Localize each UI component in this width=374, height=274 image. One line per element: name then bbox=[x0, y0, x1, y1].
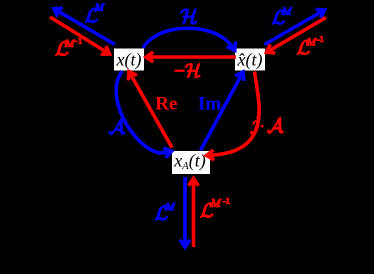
svg-text:xA(t): xA(t) bbox=[173, 151, 205, 173]
svg-text:x(t): x(t) bbox=[116, 49, 142, 70]
svg-text:Im: Im bbox=[198, 93, 221, 114]
svg-text:x̂(t): x̂(t) bbox=[237, 49, 263, 70]
svg-text:Re: Re bbox=[155, 93, 177, 114]
